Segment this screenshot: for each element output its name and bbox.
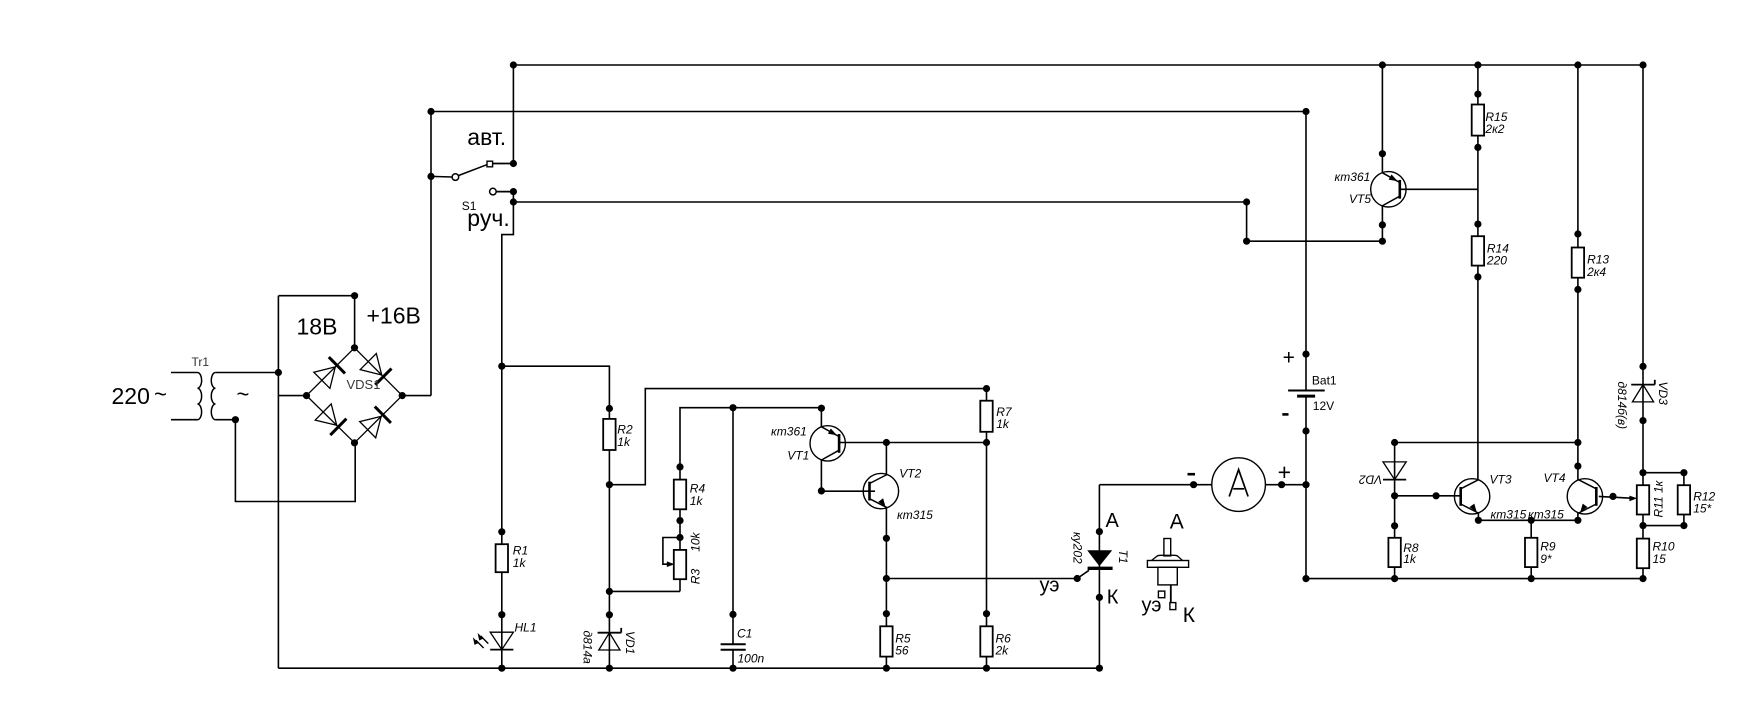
wire VD2-R8 column [1394,443,1396,579]
svg-text:15: 15 [1653,552,1667,566]
svg-text:1k: 1k [996,417,1010,431]
svg-text:Т1: Т1 [1116,550,1130,564]
svg-text:руч.: руч. [467,205,509,231]
label minus ammeter [1188,473,1196,476]
svg-text:ку202: ку202 [1071,532,1085,564]
wire VT1 collector to VT2 base [821,460,875,491]
svg-text:56: 56 [895,644,909,658]
wire VT1 base / VT2 collector / R7 bottom [840,442,987,444]
LED HL1 emission arrows [476,636,488,648]
wire VD2 top rail to R13 [1395,442,1578,444]
svg-text:уэ: уэ [1040,575,1060,597]
wire ammeter line [1099,484,1306,486]
svg-text:+16В: +16В [367,303,421,329]
svg-text:кт315: кт315 [1491,508,1527,522]
wire уэ gate line [886,578,1077,580]
thyristor T1 cathode bar [1088,567,1113,570]
svg-text:15*: 15* [1693,502,1711,516]
bridge diode VDS1 top-left [307,348,355,396]
wire second rail to battery + [431,111,1306,113]
wire thyristor gate diagonal [1077,570,1089,578]
resistor R1 [496,544,508,572]
transformer Tr1 primary winding [198,373,202,420]
svg-text:12V: 12V [1313,399,1334,413]
svg-text:2к2: 2к2 [1484,122,1504,136]
svg-text:кт361: кт361 [1335,170,1371,184]
zener diode VD3 [1631,384,1655,386]
svg-text:18В: 18В [297,314,338,340]
wire battery upper [1305,112,1307,391]
wire R2 to VD1 column [608,409,610,669]
resistor R10 [1637,539,1649,569]
resistor R8 [1388,538,1400,567]
wire VT4 base to R11 wiper [1599,496,1631,498]
svg-text:1k: 1k [690,494,704,508]
junction dots transformer and bridge [232,292,406,446]
switch S1 pole contact [452,174,459,181]
svg-text:Bat1: Bat1 [1312,374,1337,388]
wire авт. contact up to top rail [512,65,514,164]
wire R9 column [1530,520,1532,578]
svg-text:100n: 100n [738,652,765,666]
battery Bat1 plates [1288,390,1325,392]
wire primary top lead [171,372,198,374]
diode VD2 [1383,462,1406,480]
switch S1 lever [459,165,488,176]
svg-text:VD1: VD1 [623,631,637,654]
wire R2 bottom to mid rail [609,389,986,485]
svg-text:1k: 1k [513,556,527,570]
resistor R4 [674,480,686,510]
transistor VT4 (кт315 NPN) [1567,479,1602,514]
svg-text:2k: 2k [995,644,1010,658]
potentiometer R3 wiper arrow [667,561,675,567]
wire руч. contact [496,191,513,193]
resistor R7 [980,401,992,432]
svg-text:Tr1: Tr1 [192,355,210,369]
svg-text:уэ: уэ [1142,595,1162,617]
wire branch to R2 [502,366,610,408]
wire C1 vertical upper [732,408,734,645]
potentiometer R11 wiper arrow [1629,496,1637,502]
wire VT2 collector lead [885,443,887,475]
potentiometer R11 body [1637,485,1649,514]
svg-text:+: + [1283,346,1295,369]
thyristor package pin A [1164,539,1171,556]
wire VT5 emitter lead [1381,65,1383,173]
svg-text:220: 220 [112,383,150,409]
svg-text:д814б(в): д814б(в) [1615,382,1629,430]
svg-text:~: ~ [237,382,250,407]
wire VT5 collector lead [1381,206,1383,242]
LED HL1 [490,632,513,649]
transistor VT2 (кт315 NPN) [863,473,898,508]
svg-text:VT1: VT1 [787,449,809,463]
wire secondary top lead [215,372,278,374]
svg-text:кт361: кт361 [771,424,807,438]
svg-text:кт315: кт315 [897,508,933,522]
switch S1 руч. contact circle [490,188,497,195]
svg-text:д814а: д814а [581,631,595,665]
svg-text:VT5: VT5 [1349,192,1371,206]
resistor R5 [880,626,892,656]
transformer Tr1 secondary winding [211,373,215,420]
potentiometer R3 body [674,550,686,579]
wire R7 column [986,389,988,669]
junction dots left columns [498,363,990,672]
wire VD2 to VT3 base [1395,495,1461,497]
resistor R12 [1678,485,1690,514]
svg-text:9*: 9* [1540,552,1552,566]
svg-text:А: А [1106,510,1120,532]
svg-text:VT2: VT2 [899,466,921,480]
svg-text:HL1: HL1 [515,620,537,634]
ammeter A [1212,458,1266,512]
switch S1 авт. contact square [487,161,493,167]
thyristor package gate pin [1158,591,1164,598]
wire R11-R10 column [1642,473,1644,579]
junction dots thyristor and meter [1074,351,1310,672]
transistor VT1 (кт361 PNP) [810,426,845,461]
wire руч. contact down-jog [502,192,514,669]
wire pole to contact [431,175,452,178]
wire top-left loop [278,296,354,348]
bridge diode VDS1 bottom-left [307,396,355,443]
wire VT5 base to R14/R15 [1401,188,1478,190]
capacitor C1 [721,643,746,645]
svg-text:VT3: VT3 [1490,473,1512,487]
svg-text:1k: 1k [1403,552,1417,566]
zener diode VD1 [598,632,622,634]
resistor R15 [1472,105,1484,136]
wire thyristor column [1098,485,1100,669]
wire third rail (руч. bus) [513,201,1246,203]
resistor R13 [1572,248,1584,278]
wire VD3 column [1642,65,1644,473]
wire C1 vertical lower [732,650,734,668]
wire R15-R14 column [1477,65,1479,480]
svg-text:10k: 10k [689,531,703,551]
thyristor package dome [1152,555,1183,560]
thyristor T1 anode triangle [1087,550,1112,566]
wire primary bottom lead [171,419,198,421]
wire R4 top rail to VT1 emitter [680,408,821,592]
svg-text:авт.: авт. [467,124,506,150]
resistor R9 [1525,538,1537,567]
resistor R14 [1472,236,1484,265]
wire far-left vertical [277,296,279,669]
svg-text:К: К [1107,586,1119,608]
wire R12 branch [1643,473,1684,526]
wire R3 bottom to VD1 [609,590,680,592]
wire VT2 emitter down to R5 [885,508,887,668]
wire top rail (+16V авт. bus) [513,64,1643,66]
wire VT1 emitter lead [820,408,822,427]
svg-text:R3: R3 [689,569,703,585]
wire авт. contact [493,163,514,165]
wire secondary bottom path [215,420,355,502]
svg-text:А: А [1170,510,1184,533]
junction dots right section [1391,91,1688,583]
svg-text:~: ~ [154,382,167,407]
resistor R2 [603,419,615,450]
svg-text:VT4: VT4 [1544,471,1566,485]
thyristor package cathode pin [1170,585,1172,603]
transistor VT5 (кт361 PNP) [1371,172,1406,207]
wire R3 wiper [663,538,680,565]
svg-text:1k: 1k [617,435,631,449]
wire battery lower to bottom-right rail [1305,396,1307,578]
thyristor package body [1158,567,1177,585]
junction dots top rails [427,61,1646,244]
svg-text:VD2: VD2 [1359,472,1383,486]
bridge diode VDS1 top-right [355,348,403,396]
wire bottom-right rail [1306,578,1643,580]
thyristor package flange [1147,561,1188,568]
svg-text:К: К [1183,604,1196,627]
svg-text:2к4: 2к4 [1586,265,1606,279]
wire R13 column [1577,65,1579,480]
transistor VT3 (кт315 NPN) [1454,479,1489,514]
wire руч. bus jog down [1247,202,1383,241]
svg-text:220: 220 [1486,254,1507,268]
wire bottom-left rail [278,667,1099,669]
wire bridge right to pole [402,395,431,397]
bridge diode VDS1 bottom-right [355,396,403,443]
svg-text:VDS1: VDS1 [347,377,381,392]
label minus battery [1282,413,1288,416]
svg-text:C1: C1 [737,626,752,640]
wire bridge left to vertical [278,395,306,397]
svg-text:VD3: VD3 [1656,382,1670,406]
resistor R6 [980,626,992,656]
svg-text:R11 1к: R11 1к [1652,479,1666,517]
wire VT3-VT4 emitters to R9 [1478,513,1578,520]
svg-text:+: + [1278,459,1291,485]
wire pole vertical to bridge + [430,112,432,396]
